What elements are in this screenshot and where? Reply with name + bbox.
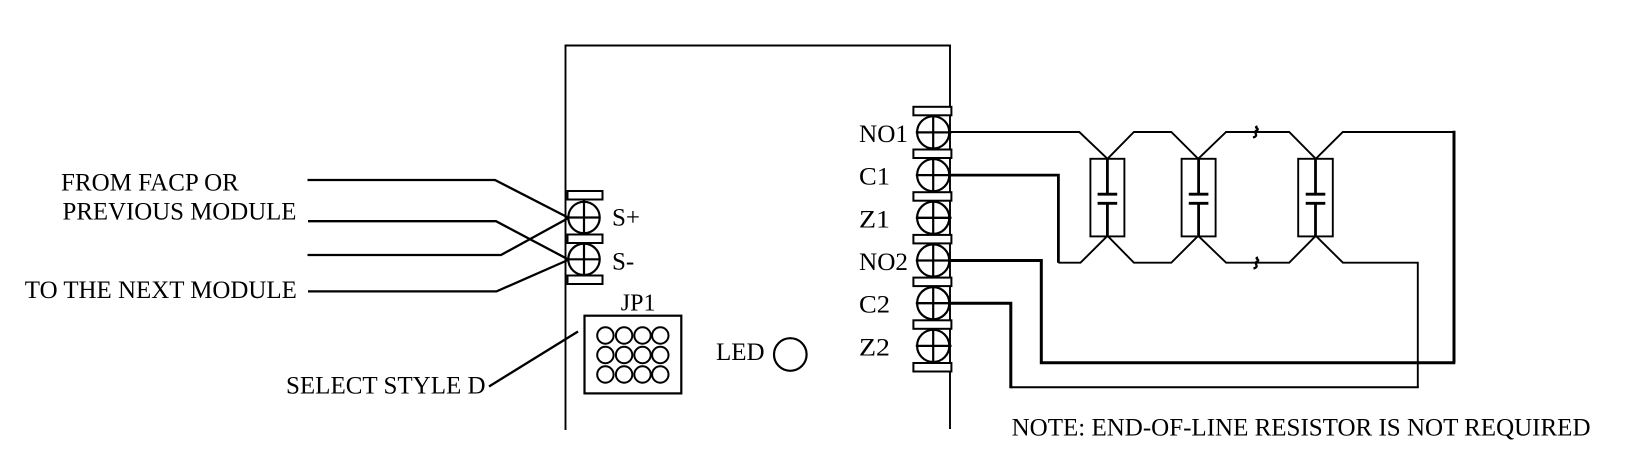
terminal NO2	[916, 243, 952, 277]
svg-text:LED: LED	[716, 339, 765, 366]
leader line to JP1	[489, 332, 578, 387]
terminal S+	[566, 200, 600, 235]
svg-text:S-: S-	[612, 249, 634, 276]
wire appliance A2 bottom to A3 bottom	[1198, 236, 1316, 263]
svg-text:SELECT STYLE D: SELECT STYLE D	[286, 373, 486, 400]
terminal Z1	[916, 201, 952, 235]
label NO1	[859, 121, 908, 148]
wire to next module line 3 to S+	[308, 218, 569, 255]
appliance A3 (polarized device)	[1298, 159, 1333, 237]
wire right side vertical down	[1453, 131, 1456, 363]
label Z1	[859, 206, 890, 233]
svg-text:S+: S+	[612, 204, 640, 231]
break mark on top run	[1253, 127, 1258, 138]
module outline right edge	[949, 45, 951, 429]
wire appliance A3 top to right corner	[1316, 132, 1454, 159]
wire to next module line 4 to S-	[308, 260, 568, 291]
label Z2	[859, 334, 890, 361]
label LED	[716, 339, 765, 366]
label NO2	[859, 249, 908, 276]
label S-	[612, 249, 634, 276]
LED indicator	[774, 338, 807, 371]
note text	[1012, 415, 1591, 442]
wire bottom run to NO2 riser	[949, 261, 1455, 363]
svg-text:NO1: NO1	[859, 121, 908, 148]
terminal NO1	[916, 115, 952, 149]
wire C2 riser	[949, 303, 1011, 388]
svg-text:Z1: Z1	[859, 206, 890, 233]
wire appliance A1 top to A2 top	[1108, 132, 1199, 159]
label S+	[612, 204, 640, 231]
svg-text:PREVIOUS MODULE: PREVIOUS MODULE	[63, 199, 297, 226]
break mark on bottom run	[1254, 258, 1259, 269]
wire NO1 to appliance chain top	[951, 132, 1108, 159]
terminal C1	[916, 158, 952, 192]
label SELECT STYLE D	[286, 373, 486, 400]
label C1	[859, 164, 890, 191]
svg-text:JP1: JP1	[621, 291, 656, 317]
appliance A1 (polarized device)	[1090, 159, 1124, 237]
wire appliance A1 bottom to A2 bottom	[1108, 236, 1199, 263]
svg-text:NO2: NO2	[859, 249, 908, 276]
wire from FACP line 2 to S-	[308, 221, 568, 259]
label JP1	[621, 291, 656, 317]
terminal block plate above S+	[568, 191, 603, 200]
terminal block plate between S+ and S-	[568, 235, 603, 244]
wire chain bottom left	[1058, 236, 1107, 263]
label TO THE NEXT MODULE	[25, 277, 297, 304]
terminal Z2	[916, 329, 952, 363]
jumper block JP1	[585, 316, 682, 394]
wire C1 to chain bottom	[949, 175, 1058, 263]
module outline left edge	[565, 45, 567, 430]
svg-text:TO THE NEXT MODULE: TO THE NEXT MODULE	[25, 277, 297, 304]
wire from FACP line 1 to S+	[308, 180, 569, 218]
appliance A2 (polarized device)	[1182, 159, 1216, 237]
svg-text:FROM FACP OR: FROM FACP OR	[61, 170, 239, 197]
module outline top edge	[565, 45, 951, 47]
svg-text:NOTE: END-OF-LINE RESISTOR IS: NOTE: END-OF-LINE RESISTOR IS NOT REQUIR…	[1012, 415, 1591, 442]
label FROM FACP OR PREVIOUS MODULE	[61, 170, 297, 226]
wire appliance A3 bottom to right	[1316, 236, 1418, 387]
wire appliance A2 top to A3 top	[1198, 132, 1316, 159]
label C2	[859, 292, 890, 319]
svg-text:Z2: Z2	[859, 334, 890, 361]
terminal block plate below S-	[568, 276, 603, 285]
terminal S-	[566, 243, 600, 276]
right terminal strip plates	[913, 107, 951, 372]
svg-text:C2: C2	[859, 292, 890, 319]
terminal C2	[916, 286, 952, 320]
svg-text:C1: C1	[859, 164, 890, 191]
wire bottom return run to C2 riser	[1011, 386, 1419, 388]
